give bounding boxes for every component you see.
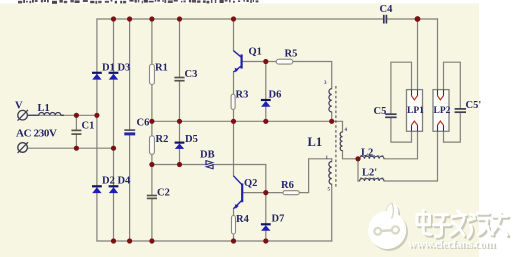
wire: R6 to winding C top (266, 159, 332, 193)
svg-text:AC 230V: AC 230V (16, 128, 57, 140)
transformer core (dashed) (335, 86, 337, 188)
node: Q2 base (263, 190, 268, 195)
transformer L1 winding C (329, 162, 332, 185)
svg-text:C3: C3 (185, 69, 198, 80)
wire: C5 loop around LP1 (391, 62, 412, 142)
node: AC input junctions (74, 113, 79, 118)
transistor Q1 (241, 54, 243, 68)
diode D6 (261, 100, 271, 107)
lamp LP1 (407, 90, 423, 132)
wire: winding B bottom to L2 node (343, 151, 359, 159)
wire: R2/D5/DB to Q2 base (152, 165, 266, 193)
svg-text:C6: C6 (137, 118, 150, 129)
wire: Q2 collector from mid bus (233, 121, 235, 176)
wire: D7 vertical (265, 193, 267, 241)
wire: AC input lower (28, 147, 114, 149)
svg-text:LP1: LP1 (407, 106, 424, 116)
svg-text:V: V (15, 101, 23, 112)
svg-text:D1 D3: D1 D3 (102, 63, 130, 74)
wire: L2' to LP2 lower left pin (384, 131, 438, 181)
node: bottom bus junctions (111, 238, 116, 243)
watermark CJK text 电子发烧友 (stylized strokes), shadow then white (417, 210, 509, 239)
wire: L2' vertical from L2 node (358, 159, 360, 181)
node: DB wire junctions (149, 162, 154, 167)
svg-text:L2': L2' (362, 168, 377, 179)
svg-text:C1: C1 (82, 121, 95, 132)
wire: winding A bottom to mid bus (331, 112, 333, 121)
svg-text:D6: D6 (269, 90, 282, 101)
wire: Q1 collector riser (233, 19, 235, 51)
wire: D3/D4 vertical (113, 19, 115, 241)
resistor R5 (276, 59, 293, 64)
capacitor C5' (455, 109, 466, 112)
node: top bus junctions (111, 16, 116, 21)
inductor L2 (360, 156, 384, 158)
wire: AC input upper (28, 114, 97, 116)
node: Q1 base (263, 59, 268, 64)
wire: C5' loop around LP2 (444, 62, 461, 142)
wire: Q1 emitter to R3 to mid bus (233, 72, 235, 121)
diode D4 (109, 186, 119, 193)
wire: mid bus jog to winding B (332, 121, 343, 132)
resistor R2 (150, 136, 155, 155)
capacitor C5 (385, 114, 396, 117)
diode D7 (261, 224, 271, 230)
svg-text:D2 D4: D2 D4 (102, 176, 131, 187)
transformer L1 winding A (329, 89, 332, 112)
capacitor C3 (174, 78, 184, 81)
diode D2 (92, 186, 102, 193)
capacitor C1 (71, 130, 81, 134)
svg-text:D5: D5 (185, 134, 198, 145)
wire: Q2 emitter to R4 (233, 209, 235, 241)
wire: C1 vertical (75, 115, 77, 148)
svg-text:C2: C2 (157, 188, 170, 199)
svg-text:C5: C5 (374, 106, 387, 117)
lamp LP2 (433, 90, 449, 132)
capacitor C2 (147, 196, 157, 199)
wire: winding C to bottom bus (331, 159, 333, 241)
wire: R1/R2/C2 vertical (151, 19, 153, 241)
wire: C6 vertical (129, 19, 131, 241)
capacitor C6 (electrolytic) (124, 130, 135, 134)
wire: top bus left of C4 (97, 19, 384, 241)
resistor R4 (232, 216, 236, 235)
watermark logo (368, 203, 406, 249)
inductor L1 (input filter coil) (28, 113, 64, 116)
diode D3 (109, 73, 119, 80)
svg-text:C5': C5' (466, 100, 482, 111)
wire: LP1 upper right pin from C4 node (417, 19, 419, 90)
svg-text:R1: R1 (155, 63, 168, 74)
svg-text:L1: L1 (308, 135, 323, 149)
svg-text:www.elecfans.com: www.elecfans.com (408, 236, 495, 250)
capacitor C4 (384, 15, 387, 24)
watermark logo shadow (370, 213, 408, 251)
wire: L2 to LP1 lower right pin (384, 131, 418, 159)
wire: mid bus (152, 120, 332, 122)
svg-text:L1: L1 (38, 103, 50, 114)
svg-text:L2: L2 (361, 148, 373, 159)
svg-text:R2: R2 (156, 134, 169, 145)
cut-off title text fragments (18, 0, 258, 4)
svg-text:R5: R5 (285, 49, 298, 60)
svg-text:D7: D7 (272, 214, 285, 225)
diac DB (206, 160, 213, 169)
svg-text:Q1: Q1 (249, 47, 262, 58)
diode D5 (175, 143, 185, 149)
wire: R5 to winding A (266, 62, 332, 89)
terminal V (upper input) (18, 110, 28, 121)
svg-text:Q2: Q2 (244, 178, 257, 189)
wire: C3/D5 vertical (179, 19, 181, 165)
wire: LP2 upper left pin (437, 19, 439, 90)
svg-text:DB: DB (200, 150, 215, 161)
svg-text:R3: R3 (236, 90, 249, 101)
wire: top bus right of C4 to LP2 corner (387, 18, 438, 20)
svg-text:R6: R6 (281, 180, 294, 191)
wire: D6 vertical (265, 62, 267, 122)
transistor Q2 (241, 183, 243, 202)
wire: Q1 base (242, 61, 266, 63)
svg-text:LP2: LP2 (434, 106, 451, 116)
transformer L1 winding B (340, 132, 342, 151)
resistor R1 (150, 64, 155, 84)
wire: Q2 base (242, 192, 266, 194)
resistor R6 (283, 191, 299, 195)
node: L2 feed (355, 156, 360, 161)
svg-text:C4: C4 (380, 4, 394, 15)
node: mid bus junctions (149, 119, 154, 124)
inductor L2' (360, 179, 384, 181)
resistor R3 (231, 94, 235, 109)
terminal (lower input) (18, 142, 28, 153)
svg-text:R4: R4 (236, 214, 250, 225)
diode D1 (92, 73, 102, 80)
